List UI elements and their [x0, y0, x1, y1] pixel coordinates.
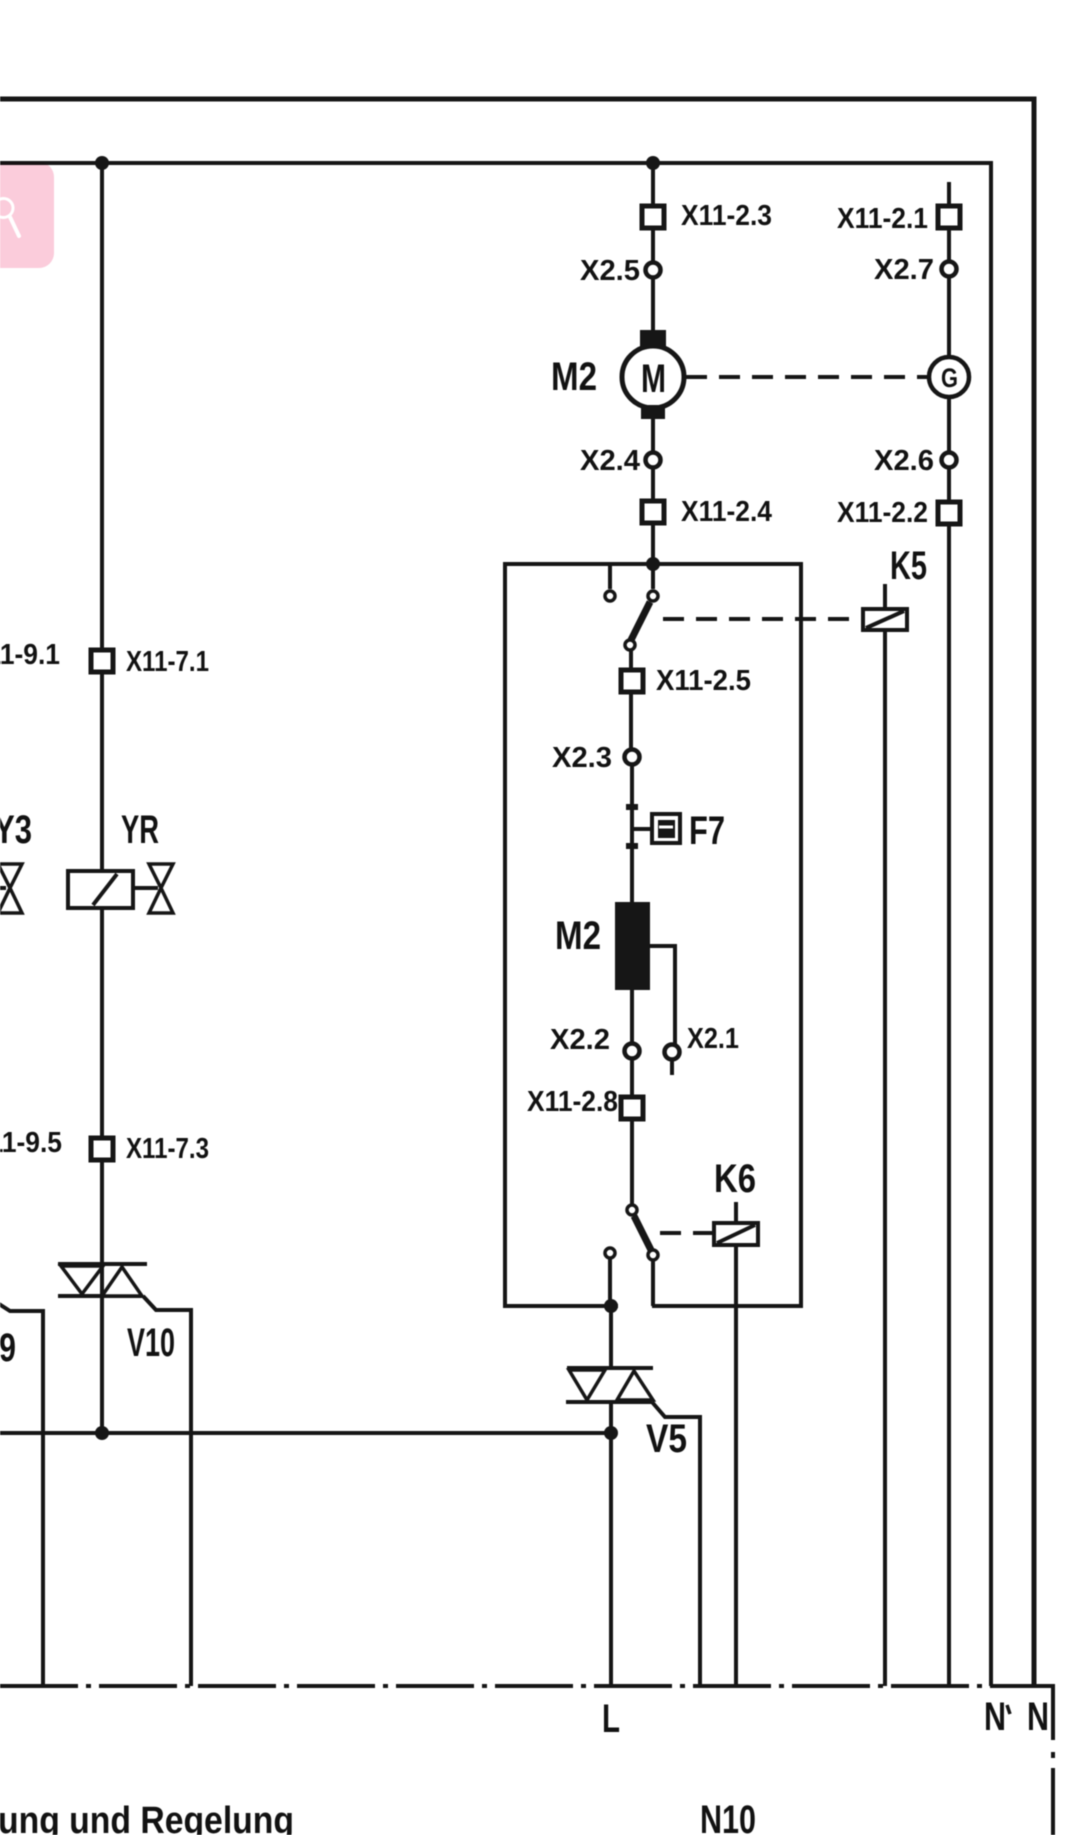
connector X11-7.1	[91, 650, 113, 672]
svg-text:N: N	[1027, 1695, 1049, 1739]
svg-text:N10: N10	[700, 1798, 756, 1835]
wire to X11-2.5	[629, 650, 633, 670]
motor M2 brush bottom	[641, 405, 665, 419]
wire bottom boundary chain line	[0, 1684, 990, 1688]
winding M2	[615, 902, 650, 990]
svg-text:X11-2.5: X11-2.5	[656, 665, 751, 697]
svg-text:X11-2.3: X11-2.3	[681, 200, 772, 232]
svg-text:N: N	[984, 1695, 1006, 1739]
svg-text:G: G	[941, 363, 958, 393]
svg-text:X11-9.1: X11-9.1	[0, 639, 60, 671]
wire winding tap	[650, 946, 675, 1044]
valve symbol YR	[133, 886, 158, 890]
svg-text:X11-7.1: X11-7.1	[126, 646, 209, 678]
svg-text:X2.6: X2.6	[874, 445, 934, 477]
wire motor branch lower	[651, 408, 655, 564]
svg-text:M: M	[641, 357, 666, 401]
solenoid YR coil	[68, 871, 133, 908]
switch alternate contact top	[608, 564, 612, 589]
wire to X2.3	[629, 692, 633, 750]
connector X2.2	[625, 1044, 640, 1059]
node junction motor top	[646, 156, 660, 170]
relay coil K6	[714, 1157, 758, 1686]
switch S1 common contact	[651, 564, 655, 589]
svg-text:ung und Regelung: ung und Regelung	[0, 1800, 294, 1835]
valve symbol Y3 partial	[0, 886, 6, 890]
triac V9 partial gate wire	[0, 1302, 43, 1686]
svg-text:YR: YR	[121, 808, 159, 852]
svg-text:X2.2: X2.2	[550, 1024, 610, 1056]
wire dashed motor-generator link	[686, 375, 929, 379]
switch K6 blade	[634, 1216, 651, 1250]
svg-text:X2.3: X2.3	[552, 742, 612, 774]
switch K6 contact	[648, 1250, 658, 1260]
connector X11-2.8	[621, 1097, 643, 1119]
connector X2.7	[942, 262, 957, 277]
wire V5 down	[609, 1402, 613, 1686]
wire X2.2 to X11-2.8	[630, 1059, 634, 1097]
wire X2.1 stub	[670, 1060, 674, 1075]
wire dashed K5 link	[663, 617, 861, 621]
wire motor branch upper	[651, 163, 655, 347]
switch K6 pivot	[627, 1205, 637, 1215]
connector X2.1	[665, 1045, 680, 1060]
svg-text:X11-2.8: X11-2.8	[527, 1086, 618, 1118]
connector X11-2.4	[642, 501, 664, 523]
connector X2.3	[625, 750, 640, 765]
node junction gate bus	[604, 1426, 618, 1440]
svg-text:X11-7.3: X11-7.3	[126, 1133, 209, 1165]
svg-text:Y3: Y3	[0, 808, 32, 852]
motor M2 circle	[622, 346, 684, 408]
svg-text:K5: K5	[890, 544, 927, 588]
wire to winding	[630, 765, 634, 902]
wire dashed K6 link	[660, 1231, 712, 1235]
node junction box bottom	[604, 1299, 618, 1313]
svg-text:X11-2.1: X11-2.1	[837, 203, 928, 235]
node junction left bus	[95, 156, 109, 170]
svg-text:X11-2.2: X11-2.2	[837, 497, 928, 529]
switch K6 alternate contact	[605, 1248, 615, 1258]
svg-text:L: L	[602, 1697, 620, 1741]
svg-text:V5: V5	[646, 1417, 687, 1461]
switch S1 blade	[631, 602, 650, 640]
search badge	[0, 162, 54, 268]
svg-text:V9: V9	[0, 1326, 16, 1370]
fuse F7	[632, 809, 725, 853]
svg-text:M2: M2	[555, 914, 601, 958]
wire left branch vertical	[100, 163, 104, 1433]
svg-text:X2.5: X2.5	[580, 255, 640, 287]
connector X11-7.3	[91, 1138, 113, 1160]
node junction box top	[646, 557, 660, 571]
svg-text:X2.1: X2.1	[687, 1023, 739, 1055]
svg-text:X11-2.4: X11-2.4	[681, 496, 772, 528]
svg-text:F7: F7	[689, 809, 725, 853]
svg-text:M2: M2	[551, 355, 597, 399]
wire bottom boundary corner	[990, 1686, 1053, 1835]
connector X11-2.5	[621, 670, 643, 692]
generator G circle	[929, 357, 969, 397]
svg-text:X11-9.5: X11-9.5	[0, 1127, 62, 1159]
svg-text:K6: K6	[714, 1157, 756, 1201]
triac V10	[58, 1264, 191, 1686]
wire to triac V5	[609, 1306, 613, 1368]
svg-text:X2.7: X2.7	[874, 254, 934, 286]
wire generator branch	[947, 182, 951, 1686]
triac V5	[566, 1368, 700, 1686]
motor unit box	[505, 564, 801, 1306]
wire winding bottom	[630, 990, 634, 1043]
node junction left bottom	[95, 1426, 109, 1440]
fuse F7 ticks	[626, 807, 638, 846]
connector X11-2.1	[938, 206, 960, 228]
connector X2.6	[942, 453, 957, 468]
wire contact to box	[651, 1260, 655, 1306]
svg-text:V10: V10	[127, 1321, 175, 1365]
wire to K6 switch	[630, 1119, 634, 1205]
connector X11-2.3	[642, 206, 664, 228]
connector X11-2.2	[938, 502, 960, 524]
switch S1 pivot	[625, 640, 635, 650]
svg-text:X2.4: X2.4	[580, 445, 640, 477]
wire inner bus line N	[0, 163, 991, 1686]
wire gate bus horizontal	[0, 1431, 611, 1435]
motor M2 brush top	[640, 330, 666, 347]
connector X2.4	[646, 453, 661, 468]
connector X2.5	[646, 263, 661, 278]
wire alternate contact down	[608, 1258, 612, 1306]
